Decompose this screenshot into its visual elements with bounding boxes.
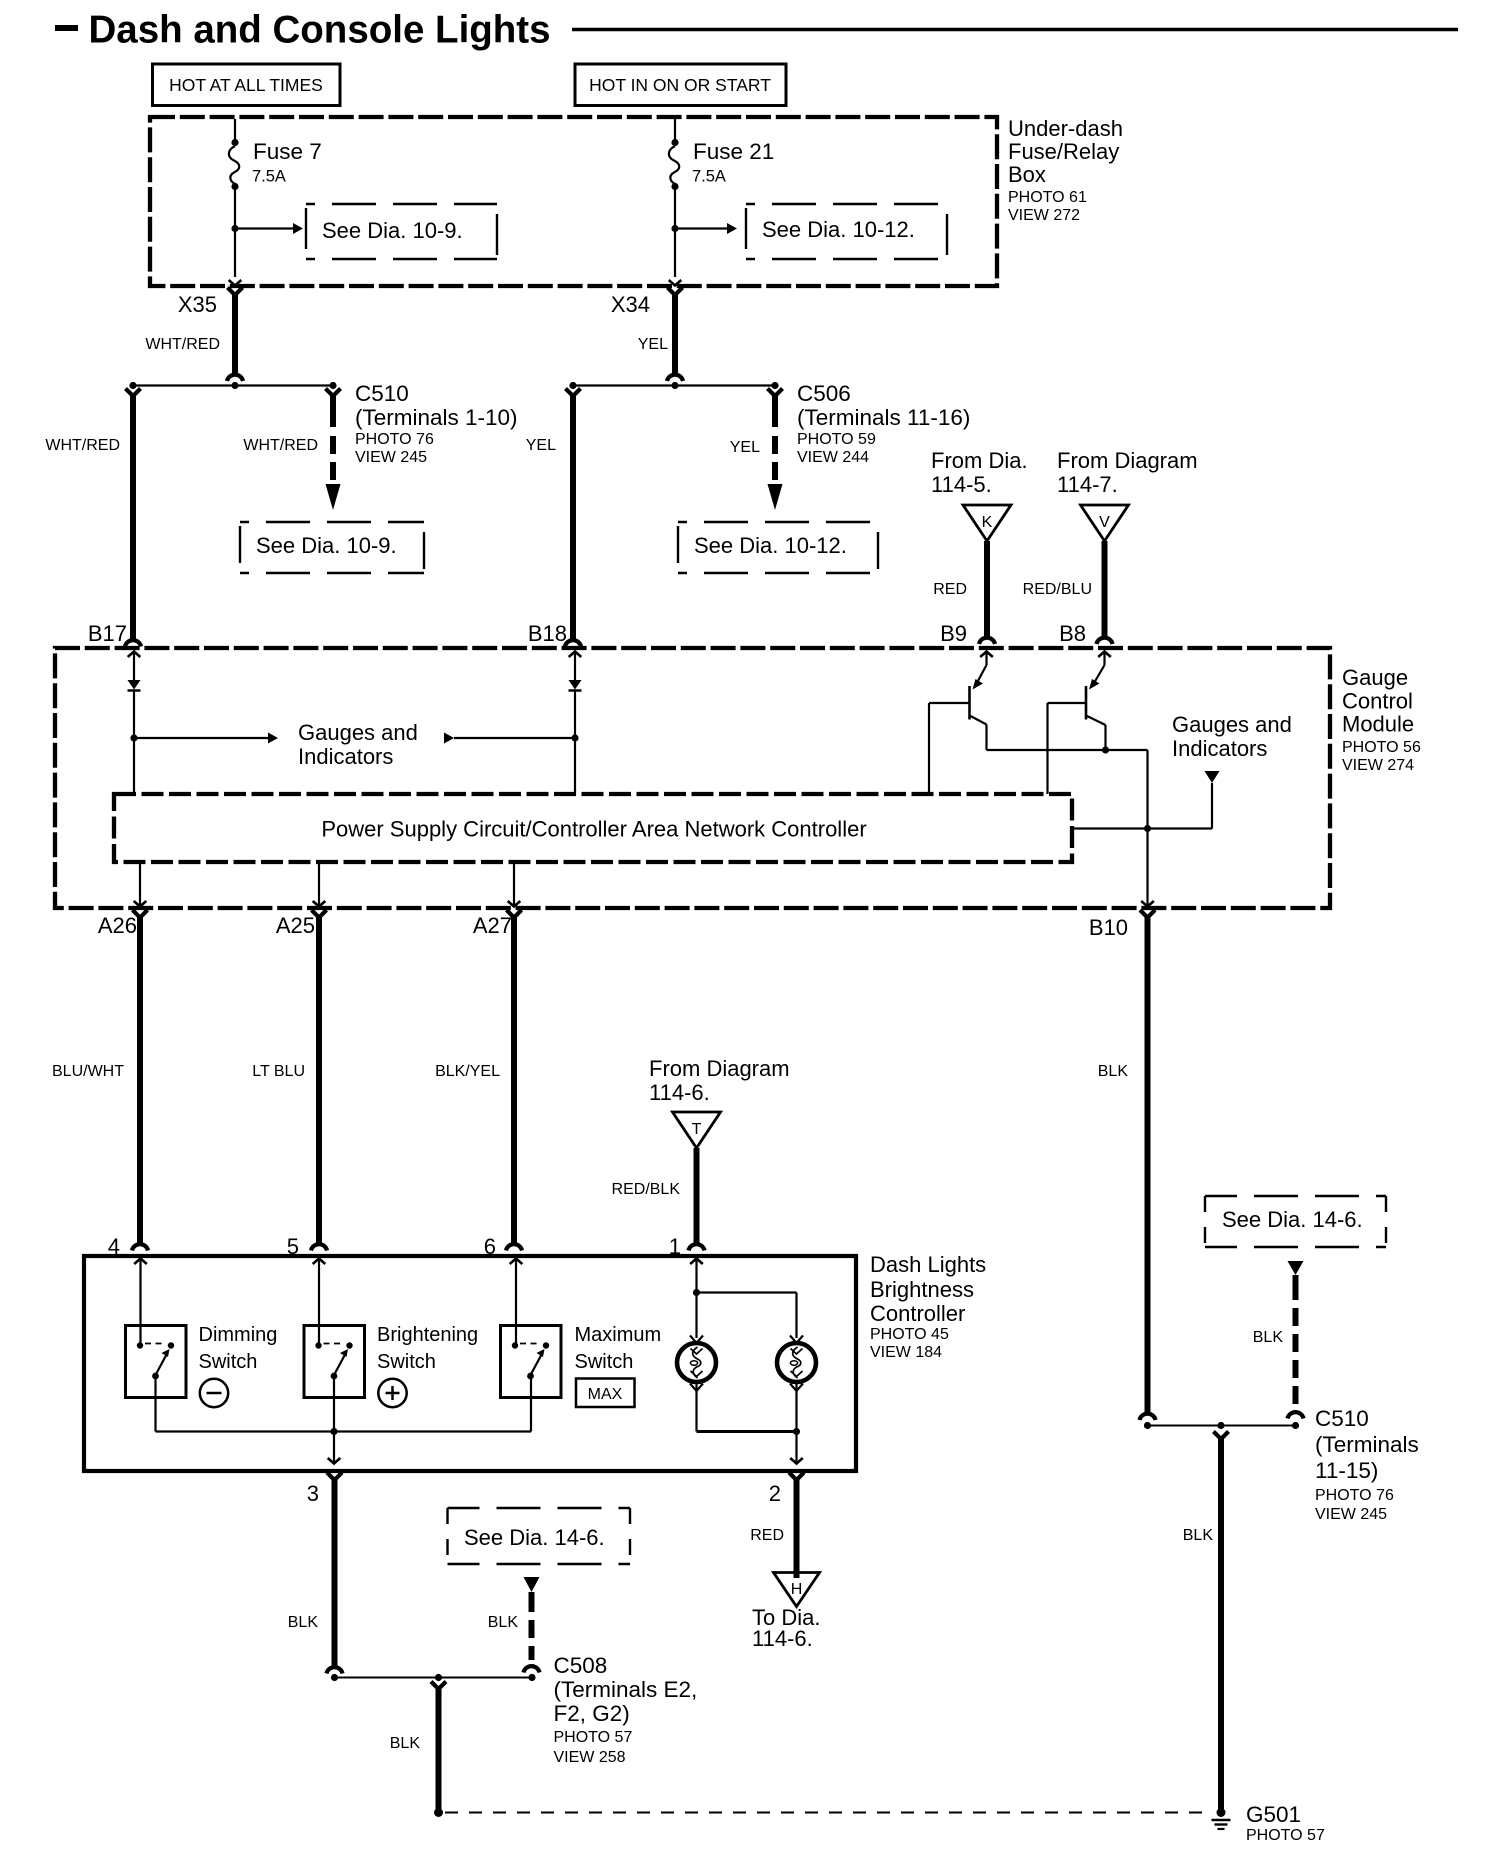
wire pin 3 BLK: [327, 1473, 342, 1481]
svg-text:PHOTO 56: PHOTO 56: [1342, 739, 1421, 756]
svg-text:WHT/RED: WHT/RED: [145, 336, 220, 353]
svg-text:BLU/WHT: BLU/WHT: [52, 1063, 124, 1080]
svg-text:B9: B9: [940, 621, 967, 646]
svg-text:114-6.: 114-6.: [649, 1080, 710, 1105]
lamp L2: [790, 1336, 803, 1344]
svg-text:Switch: Switch: [575, 1351, 634, 1373]
svg-text:C508: C508: [554, 1653, 608, 1678]
node fuse7 junction: [231, 225, 238, 232]
wire A27 BLK/YEL: [507, 910, 522, 918]
svg-text:VIEW 258: VIEW 258: [554, 1749, 626, 1766]
svg-text:YEL: YEL: [526, 437, 556, 454]
svg-text:114-6.: 114-6.: [752, 1626, 813, 1651]
reference box See Dia. 10-12. (upper): [746, 203, 947, 205]
fuse F7: [231, 139, 238, 146]
wire from See Dia. 14-6. to C508 BLK: [524, 1577, 540, 1592]
svg-text:C510: C510: [355, 381, 409, 406]
svg-text:BLK: BLK: [288, 1614, 319, 1631]
wire T to pin 1 RED/BLK: [694, 1148, 700, 1245]
reference box See Dia. 10-12. (lower): [678, 521, 878, 523]
svg-text:BLK: BLK: [1098, 1063, 1129, 1080]
svg-text:X34: X34: [611, 292, 650, 317]
off-page connector H to Dia. 114-6: [774, 1573, 820, 1607]
node junction row left: [133, 384, 333, 386]
dash lights brightness controller box: [84, 1256, 856, 1471]
svg-text:(Terminals 1-10): (Terminals 1-10): [355, 405, 518, 430]
svg-text:Power Supply Circuit/Controlle: Power Supply Circuit/Controller Area Net…: [321, 817, 866, 842]
wire B18 YEL: [566, 389, 581, 397]
svg-text:See Dia. 10-12.: See Dia. 10-12.: [762, 217, 915, 242]
svg-text:7.5A: 7.5A: [692, 168, 726, 186]
reference box See Dia. 14-6. (left): [448, 1507, 631, 1509]
svg-text:See Dia. 10-12.: See Dia. 10-12.: [694, 533, 847, 558]
node B18 internal junction: [571, 734, 578, 741]
pin 5 internal wire: [313, 1259, 326, 1265]
lamp bottom bus wire: [697, 1430, 797, 1433]
module output A26 internal wire: [139, 862, 141, 905]
svg-text:B10: B10: [1089, 915, 1128, 940]
svg-text:RED/BLK: RED/BLK: [612, 1181, 681, 1198]
svg-text:Brightening: Brightening: [377, 1324, 478, 1346]
pin 1 internal wire: [690, 1259, 703, 1265]
wire B10 BLK: [1140, 910, 1155, 918]
svg-text:Indicators: Indicators: [298, 744, 393, 769]
node collector junction: [1102, 746, 1109, 753]
svg-text:HOT IN ON OR START: HOT IN ON OR START: [589, 75, 771, 95]
svg-text:PHOTO 76: PHOTO 76: [355, 431, 434, 448]
pin 4 internal wire: [134, 1259, 147, 1265]
svg-text:VIEW 244: VIEW 244: [797, 449, 869, 466]
node B10 internal junction: [1144, 825, 1151, 832]
svg-text:B18: B18: [528, 621, 567, 646]
wire to lamp 2 branch: [697, 1291, 797, 1293]
node B17 internal junction: [130, 734, 137, 741]
node ground junction row: [335, 1677, 533, 1679]
wire from hot bus to fuse F21: [674, 119, 676, 140]
wire junction to gauges and indicators (right): [1148, 827, 1213, 829]
title dash: [55, 25, 78, 31]
node lamp junction: [693, 1289, 700, 1296]
svg-text:BLK: BLK: [1183, 1527, 1214, 1544]
svg-text:A26: A26: [98, 913, 137, 938]
svg-text:114-7.: 114-7.: [1057, 472, 1118, 497]
module output A25 internal wire: [318, 862, 320, 905]
wire A26 BLU/WHT: [133, 910, 148, 918]
svg-text:Brightness: Brightness: [870, 1277, 974, 1302]
svg-text:BLK: BLK: [1253, 1329, 1284, 1346]
svg-text:PHOTO 45: PHOTO 45: [870, 1326, 949, 1343]
svg-text:See Dia. 10-9.: See Dia. 10-9.: [256, 533, 397, 558]
wire ground junction to G501 branch BLK: [431, 1682, 446, 1690]
reference box See Dia. 14-6. (right): [1205, 1195, 1386, 1197]
fuse F21: [671, 139, 678, 146]
transistor Q2 base lead: [1048, 702, 1087, 704]
svg-text:PHOTO 57: PHOTO 57: [1246, 1827, 1325, 1844]
svg-text:See Dia. 14-6.: See Dia. 14-6.: [464, 1525, 605, 1550]
node junction row right: [573, 384, 775, 386]
MAX label box: [576, 1379, 635, 1408]
wire B17 WHT/RED: [126, 389, 141, 397]
svg-text:Indicators: Indicators: [1172, 736, 1267, 761]
diode D2 (B18 input): [569, 680, 582, 690]
label box HOT AT ALL TIMES: [153, 64, 341, 106]
svg-text:2: 2: [769, 1481, 781, 1506]
svg-text:Fuse 21: Fuse 21: [693, 139, 774, 164]
svg-text:VIEW 245: VIEW 245: [355, 449, 427, 466]
wire fuse7 junction to X35: [234, 229, 236, 278]
svg-text:V: V: [1099, 514, 1110, 531]
svg-text:X35: X35: [178, 292, 217, 317]
svg-text:PHOTO 61: PHOTO 61: [1008, 189, 1087, 206]
svg-text:From Dia.: From Dia.: [931, 448, 1028, 473]
svg-text:Dash Lights: Dash Lights: [870, 1252, 986, 1277]
wire arrow from gauges and indicators to B18 node: [444, 733, 454, 744]
transistor Q2 (B8): [1098, 652, 1111, 658]
lamp L1: [695, 1293, 697, 1339]
wire fuse F21 to junction: [674, 189, 676, 229]
svg-text:Control: Control: [1342, 689, 1413, 714]
svg-text:Module: Module: [1342, 712, 1414, 737]
wire S1 to bus: [154, 1376, 156, 1432]
svg-text:See Dia. 14-6.: See Dia. 14-6.: [1222, 1207, 1363, 1232]
reference box See Dia. 10-9. (lower): [240, 521, 424, 523]
svg-text:WHT/RED: WHT/RED: [243, 437, 318, 454]
svg-text:3: 3: [307, 1481, 319, 1506]
svg-text:Fuse/Relay: Fuse/Relay: [1008, 139, 1119, 164]
dimming switch S1: [126, 1326, 187, 1398]
svg-text:VIEW 272: VIEW 272: [1008, 207, 1080, 224]
svg-text:HOT AT ALL TIMES: HOT AT ALL TIMES: [169, 75, 323, 95]
svg-text:RED/BLU: RED/BLU: [1023, 581, 1092, 598]
svg-text:PHOTO 76: PHOTO 76: [1315, 1487, 1394, 1504]
wire pin 2 RED: [789, 1473, 804, 1481]
svg-text:11-15): 11-15): [1315, 1458, 1378, 1483]
connector C510 stub wire: [326, 389, 341, 397]
svg-text:Dimming: Dimming: [199, 1324, 278, 1346]
svg-text:C510: C510: [1315, 1406, 1369, 1431]
svg-text:VIEW 245: VIEW 245: [1315, 1506, 1387, 1523]
diode D1 (B17 input): [128, 680, 141, 690]
svg-text:C506: C506: [797, 381, 851, 406]
wire arrow to See Dia. 10-9.: [235, 227, 294, 229]
svg-text:Gauges and: Gauges and: [1172, 712, 1292, 737]
svg-text:From Diagram: From Diagram: [1057, 448, 1198, 473]
svg-text:MAX: MAX: [588, 1386, 623, 1403]
wire arrow to gauges and indicators (left): [134, 737, 268, 739]
svg-text:114-5.: 114-5.: [931, 472, 992, 497]
svg-text:Switch: Switch: [377, 1351, 436, 1373]
svg-text:Gauge: Gauge: [1342, 665, 1408, 690]
ground G501: [1217, 1808, 1226, 1817]
svg-text:RED: RED: [750, 1527, 784, 1544]
brightening symbol (plus): [378, 1379, 406, 1407]
power supply circuit/CAN controller box: [114, 794, 1072, 862]
wire to ground G501 BLK: [1214, 1432, 1229, 1440]
svg-text:G501: G501: [1246, 1802, 1301, 1827]
node lamp bus junction: [793, 1428, 800, 1435]
svg-text:B17: B17: [88, 621, 127, 646]
svg-text:Fuse 7: Fuse 7: [253, 139, 322, 164]
connector C506 stub wire: [768, 389, 783, 397]
svg-text:Box: Box: [1008, 162, 1046, 187]
svg-text:A25: A25: [276, 913, 315, 938]
node bus junction: [330, 1428, 337, 1435]
svg-text:Under-dash: Under-dash: [1008, 116, 1123, 141]
under-dash fuse/relay box: [150, 117, 997, 286]
svg-text:WHT/RED: WHT/RED: [45, 437, 120, 454]
label box HOT IN ON OR START: [575, 64, 786, 106]
svg-text:BLK: BLK: [488, 1614, 519, 1631]
transistor Q1 base lead: [929, 702, 970, 704]
wire from See Dia. 14-6. to C510 BLK: [1288, 1261, 1304, 1275]
svg-text:(Terminals: (Terminals: [1315, 1432, 1419, 1457]
gauge control module box U1: [55, 648, 1330, 908]
svg-text:H: H: [791, 1581, 803, 1598]
transistor Q2 collector lead: [1087, 716, 1106, 725]
svg-text:(Terminals 11-16): (Terminals 11-16): [797, 405, 970, 430]
wire collector junction to right branch: [1106, 749, 1148, 751]
svg-text:Dash and Console Lights: Dash and Console Lights: [89, 9, 551, 52]
node junction row B10/C510: [1148, 1425, 1296, 1427]
svg-text:From Diagram: From Diagram: [649, 1056, 790, 1081]
svg-text:F2, G2): F2, G2): [554, 1701, 630, 1726]
wire fuse21 junction to X34: [674, 229, 676, 278]
svg-text:See Dia. 10-9.: See Dia. 10-9.: [322, 218, 463, 243]
switch bus wire: [156, 1430, 532, 1432]
svg-text:T: T: [692, 1121, 702, 1138]
transistor Q1 (B9): [980, 652, 993, 658]
svg-text:K: K: [982, 514, 993, 531]
wire from hot bus to fuse F7: [234, 119, 236, 140]
wire S2 to bus / pin 3: [333, 1376, 335, 1462]
module input B18 internal wire: [569, 652, 582, 658]
svg-text:LT BLU: LT BLU: [252, 1063, 305, 1080]
svg-text:(Terminals E2,: (Terminals E2,: [554, 1677, 698, 1702]
svg-text:YEL: YEL: [730, 439, 760, 456]
wire A25 LT BLU: [312, 910, 327, 918]
svg-text:Gauges and: Gauges and: [298, 720, 418, 745]
transistor Q1 collector lead: [971, 716, 987, 725]
svg-text:Controller: Controller: [870, 1301, 965, 1326]
maximum switch S3: [501, 1326, 562, 1398]
wire S3 to bus: [530, 1376, 532, 1432]
brightening switch S2: [304, 1326, 365, 1398]
svg-text:BLK/YEL: BLK/YEL: [435, 1063, 500, 1080]
svg-text:Switch: Switch: [199, 1351, 258, 1373]
svg-text:PHOTO 57: PHOTO 57: [554, 1729, 633, 1746]
pin 6 internal wire: [510, 1259, 523, 1265]
reference box See Dia. 10-9. (upper): [306, 203, 497, 205]
wire junction to power supply box: [1072, 827, 1148, 829]
svg-text:VIEW 184: VIEW 184: [870, 1344, 942, 1361]
svg-text:BLK: BLK: [390, 1735, 421, 1752]
wire fuse F7 to junction: [234, 189, 236, 229]
svg-text:PHOTO 59: PHOTO 59: [797, 431, 876, 448]
module output A27 internal wire: [513, 862, 515, 905]
dimming symbol (minus): [200, 1379, 228, 1407]
svg-text:Maximum: Maximum: [575, 1324, 662, 1346]
title rule: [572, 28, 1458, 32]
wire B10 internal to border: [1146, 829, 1148, 906]
svg-text:VIEW 274: VIEW 274: [1342, 757, 1414, 774]
svg-text:B8: B8: [1059, 621, 1086, 646]
svg-text:7.5A: 7.5A: [252, 168, 286, 186]
ground bus dashed wire: [445, 1812, 1212, 1814]
module input B17 internal wire: [128, 652, 141, 658]
svg-text:RED: RED: [933, 581, 967, 598]
svg-text:YEL: YEL: [638, 336, 668, 353]
wire arrow to See Dia. 10-12.: [675, 227, 727, 229]
node fuse21 junction: [671, 225, 678, 232]
svg-text:A27: A27: [473, 913, 512, 938]
